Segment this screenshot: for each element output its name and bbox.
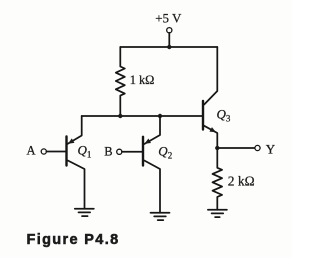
transistor Q1 emitter wire [68,116,82,144]
wire top rail [120,46,217,48]
wire to terminal Y [217,147,255,149]
transistor Q1 base bar [65,137,67,166]
transistor Q2 emitter arrow [145,139,151,144]
wire bottom rail [82,115,202,117]
resistor 2 kOhm [213,148,223,210]
wire A to Q1 base [46,151,65,153]
transistor Q1 collector wire [68,161,85,209]
terminal A [41,149,46,154]
ground under Q2 [151,213,170,220]
resistor 1 kOhm [116,47,125,116]
terminal Y [255,145,260,150]
svg-text:2 kΩ: 2 kΩ [228,173,255,188]
svg-text:+5 V: +5 V [155,11,182,26]
transistor Q3 emitter arrow [209,127,216,132]
transistor Q3 emitter wire [204,126,217,148]
transistor Q3 collector wire [204,47,217,105]
transistor Q1 emitter arrow [68,138,74,143]
ground under Q1 [75,209,94,216]
junction dot resistor node [118,114,122,118]
svg-text:A: A [27,143,36,157]
terminal +5V [167,28,172,33]
junction dot Q2 emitter node [158,114,162,118]
terminal B [117,149,122,154]
junction dot output node Y [215,146,219,150]
svg-text:1 kΩ: 1 kΩ [130,73,155,87]
transistor Q3 base bar [202,101,204,130]
ground under 2 kOhm resistor [208,210,227,217]
transistor Q2 collector wire [144,161,160,213]
svg-text:Y: Y [266,141,276,156]
svg-text:B: B [104,145,112,159]
transistor Q2 emitter wire [144,116,160,144]
wire B to Q2 base [122,151,142,153]
junction dot +5V node [167,45,171,49]
svg-text:Figure P4.8: Figure P4.8 [27,232,120,248]
transistor Q2 base bar [142,137,144,166]
wire +5V stem [168,33,170,47]
